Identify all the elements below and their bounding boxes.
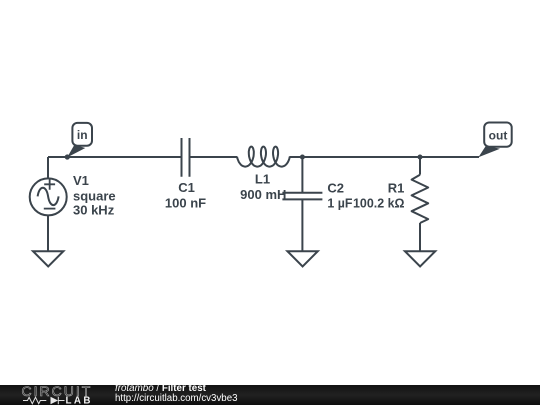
resistor R1 [412,175,429,223]
svg-text:in: in [77,128,88,142]
svg-text:LAB: LAB [66,395,93,405]
svg-text:900 mH: 900 mH [240,187,286,202]
svg-text:100 nF: 100 nF [165,196,206,211]
svg-text:C1: C1 [178,180,195,195]
svg-text:square: square [73,188,116,203]
wire C2 bottom [301,199,303,251]
ground (V1) [33,251,63,266]
svg-text:R1: R1 [388,180,405,195]
svg-text:http://circuitlab.com/cv3vbe3: http://circuitlab.com/cv3vbe3 [115,393,238,404]
wire between L1 and out [289,156,479,158]
svg-text:out: out [489,129,508,143]
node dot in [65,154,70,159]
svg-text:100.2 kΩ: 100.2 kΩ [353,195,405,210]
capacitor C2 [282,193,322,200]
wire C2 top [301,157,303,193]
ground (R1) [405,251,435,266]
flag in box [72,123,92,146]
inductor L1 [237,147,290,167]
svg-text:1 µF: 1 µF [327,195,352,210]
flag in tail [67,145,85,158]
svg-text:L1: L1 [255,172,270,187]
logo diode [51,397,59,404]
wire V1 top [47,157,49,178]
node R1 [418,155,423,160]
node L1-C2 [300,155,305,160]
svg-text:30 kHz: 30 kHz [73,202,115,217]
voltage source V1 [30,178,67,215]
ground (C2) [287,251,317,266]
wire V1 bottom [47,215,49,251]
wire between C1 and L1 [190,156,237,158]
svg-text:C2: C2 [327,180,344,195]
flag out tail [478,146,500,158]
wire main segment left [48,156,181,158]
flag out box [484,123,512,147]
capacitor C1 [182,138,190,177]
wire R1 top [419,157,421,175]
svg-text:V1: V1 [73,173,89,188]
wire R1 bottom [419,223,421,251]
logo squiggle resistor [23,397,46,403]
